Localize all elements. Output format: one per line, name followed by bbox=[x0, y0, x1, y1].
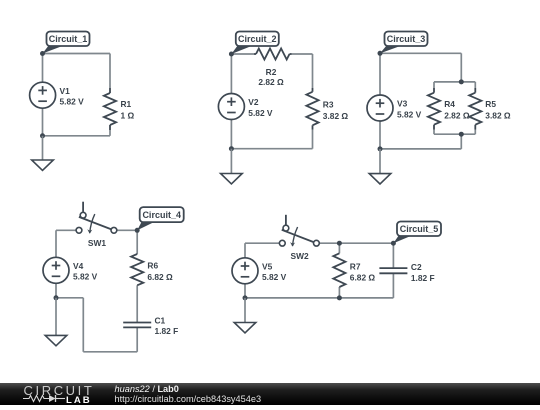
svg-text:V4: V4 bbox=[73, 261, 84, 271]
svg-text:C1: C1 bbox=[155, 315, 166, 325]
wire: parallel bottom bar bbox=[434, 130, 475, 149]
wire: V1 top lead bbox=[42, 54, 44, 96]
wire: bottom net circuit 1 bbox=[43, 95, 111, 136]
CircuitLab logo bbox=[22, 383, 102, 405]
wire: switch common to R7 node bbox=[319, 242, 339, 244]
svg-text:3.82 Ω: 3.82 Ω bbox=[323, 111, 349, 121]
wire: top net circuit 3 bbox=[380, 53, 461, 82]
footer url text bbox=[115, 395, 262, 405]
resistor R3 bbox=[306, 88, 318, 130]
svg-text:2.82 Ω: 2.82 Ω bbox=[444, 110, 470, 120]
junction: bottom-left node circuit 2 bbox=[229, 146, 234, 151]
svg-text:V5: V5 bbox=[262, 261, 273, 271]
svg-text:5.82 V: 5.82 V bbox=[73, 272, 98, 282]
resistor R7 bbox=[333, 253, 345, 287]
svg-text:Circuit_4: Circuit_4 bbox=[142, 210, 181, 220]
svg-text:R7: R7 bbox=[350, 261, 361, 271]
node label Circuit_2 callout bbox=[231, 32, 278, 55]
ground circuit 2 bbox=[221, 149, 243, 184]
svg-text:5.82 V: 5.82 V bbox=[397, 109, 422, 119]
node label Circuit_3 callout bbox=[380, 32, 428, 54]
wire: R7 node to C2 node bbox=[339, 242, 393, 244]
svg-text:V1: V1 bbox=[60, 86, 71, 96]
voltage source V1 bbox=[30, 82, 56, 108]
svg-text:R3: R3 bbox=[323, 100, 334, 110]
junction: V4 bottom node bbox=[54, 295, 59, 300]
wire: bottom net circuit 3 bbox=[380, 108, 461, 149]
capacitor C1 bbox=[123, 323, 151, 328]
svg-text:5.82 V: 5.82 V bbox=[60, 97, 85, 107]
node label Circuit_5 callout bbox=[393, 222, 441, 244]
svg-text:1.82 F: 1.82 F bbox=[411, 273, 435, 283]
svg-text:2.82 Ω: 2.82 Ω bbox=[258, 77, 284, 87]
wire: V2 top lead bbox=[230, 54, 232, 107]
footer bar bbox=[0, 383, 540, 405]
footer title text bbox=[115, 385, 179, 395]
svg-text:Circuit_2: Circuit_2 bbox=[238, 34, 277, 44]
junction: top-left node circuit 1 bbox=[40, 51, 45, 56]
wire: V4 to switch throw bbox=[56, 230, 76, 270]
svg-text:Circuit_3: Circuit_3 bbox=[387, 34, 426, 44]
junction: parallel bottom node bbox=[459, 132, 464, 137]
svg-text:C2: C2 bbox=[411, 262, 422, 272]
svg-text:R6: R6 bbox=[147, 261, 158, 271]
switch SW2 bbox=[279, 215, 319, 247]
wire: bottom net circuit 2 bbox=[231, 107, 312, 149]
svg-text:V2: V2 bbox=[248, 97, 259, 107]
junction: C2 top node bbox=[391, 241, 396, 246]
wire: bottom net circuit 5 bbox=[245, 271, 393, 298]
resistor R2 (horizontal) bbox=[254, 49, 292, 60]
wire: node down through R6 to C1 bbox=[136, 230, 138, 322]
ground circuit 4 bbox=[45, 298, 67, 346]
resistor R1 bbox=[104, 88, 116, 130]
junction: bottom-left node circuit 3 bbox=[378, 146, 383, 151]
svg-text:5.82 V: 5.82 V bbox=[262, 272, 287, 282]
wire: top net circuit 1 bbox=[43, 54, 111, 89]
svg-text:6.82 Ω: 6.82 Ω bbox=[350, 273, 376, 283]
junction: switch output node circuit 4 bbox=[135, 228, 140, 233]
switch SW1 bbox=[76, 202, 117, 234]
ground circuit 1 bbox=[32, 136, 54, 171]
node label Circuit_4 callout bbox=[137, 207, 184, 230]
resistor R5 bbox=[469, 88, 481, 130]
junction: parallel top node bbox=[459, 79, 464, 84]
voltage source V4 bbox=[43, 257, 69, 283]
ground circuit 5 bbox=[234, 298, 256, 333]
voltage source V3 bbox=[367, 95, 393, 121]
svg-text:1 Ω: 1 Ω bbox=[121, 110, 135, 120]
svg-text:LAB: LAB bbox=[66, 395, 92, 405]
junction: top-left node circuit 3 bbox=[378, 51, 383, 56]
resistor R4 bbox=[428, 88, 440, 130]
junction: V5 bottom node bbox=[243, 295, 248, 300]
svg-text:V3: V3 bbox=[397, 99, 408, 109]
voltage source V5 bbox=[232, 258, 258, 284]
junction: switch output node circuit 5 bbox=[337, 241, 342, 246]
svg-text:SW1: SW1 bbox=[88, 238, 106, 248]
svg-text:R5: R5 bbox=[485, 99, 496, 109]
node label Circuit_1 callout bbox=[43, 32, 90, 54]
resistor R6 bbox=[131, 254, 143, 285]
svg-text:3.82 Ω: 3.82 Ω bbox=[485, 110, 511, 120]
wire: V4 bottom to L-shaped bottom net bbox=[56, 270, 137, 352]
svg-text:R4: R4 bbox=[444, 99, 455, 109]
wire: V3 top lead bbox=[379, 53, 381, 108]
svg-text:1.82 F: 1.82 F bbox=[155, 326, 179, 336]
voltage source V2 bbox=[218, 94, 244, 120]
ground circuit 3 bbox=[369, 149, 391, 184]
wire: switch common to node bbox=[117, 229, 138, 231]
svg-text:6.82 Ω: 6.82 Ω bbox=[147, 272, 173, 282]
svg-text:R2: R2 bbox=[266, 67, 277, 77]
svg-text:5.82 V: 5.82 V bbox=[248, 108, 273, 118]
junction: bottom-left node circuit 1 bbox=[40, 133, 45, 138]
junction: top-left node circuit 2 bbox=[229, 52, 234, 57]
svg-text:R1: R1 bbox=[121, 99, 132, 109]
capacitor C2 bbox=[379, 268, 407, 273]
wire: parallel top bar bbox=[434, 82, 475, 88]
wire: C2 leads bbox=[392, 243, 394, 298]
wire: R7 leads bbox=[338, 243, 340, 298]
junction: R7 bottom node bbox=[337, 295, 342, 300]
wire: V5 to switch throw bbox=[245, 243, 280, 271]
svg-text:Circuit_5: Circuit_5 bbox=[400, 224, 439, 234]
wire: top net circuit 2 bbox=[231, 54, 312, 88]
svg-text:SW2: SW2 bbox=[291, 251, 309, 261]
svg-text:Circuit_1: Circuit_1 bbox=[49, 34, 88, 44]
